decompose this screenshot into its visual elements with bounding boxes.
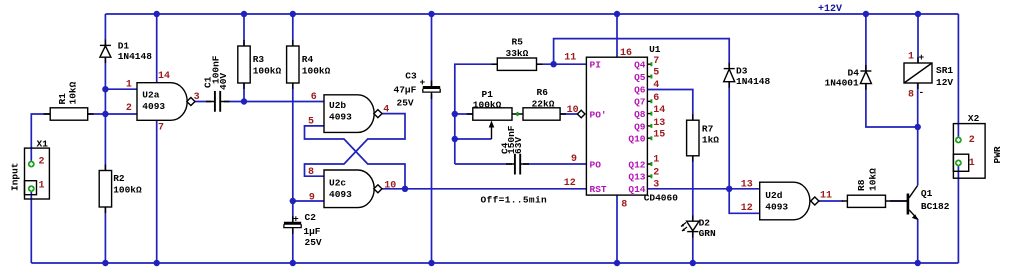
wire P1 left terminal — [455, 113, 473, 115]
svg-text:3: 3 — [194, 92, 200, 103]
node U2c out / RST — [402, 186, 408, 192]
wire U2b out crossover to U2c pin8 — [305, 114, 406, 177]
node top rail at D4 — [863, 11, 869, 17]
potentiometer P1 — [467, 108, 518, 139]
wire U2d out to R8 — [818, 200, 843, 202]
svg-text:C3: C3 — [405, 71, 417, 82]
svg-text:12: 12 — [741, 203, 753, 214]
nand gate U2b — [324, 95, 382, 133]
svg-text:1: 1 — [126, 80, 132, 91]
svg-text:BC182: BC182 — [921, 201, 950, 212]
wire R8 right to Q1 base — [890, 200, 908, 202]
svg-text:-: - — [919, 87, 925, 98]
wire C1 to R3 node to U2b pin6 — [224, 101, 324, 103]
node R4 / C2 / U2c pin9 — [290, 198, 296, 204]
svg-text:C2: C2 — [305, 212, 317, 223]
svg-text:R5: R5 — [512, 37, 524, 48]
svg-text:PWR: PWR — [992, 146, 1003, 163]
wire R3 top to +12V — [243, 14, 245, 46]
svg-text:15: 15 — [653, 130, 665, 141]
node R5 right / PI — [550, 61, 556, 67]
svg-text:1N4148: 1N4148 — [736, 76, 771, 87]
svg-text:R4: R4 — [302, 54, 314, 65]
svg-text:16: 16 — [620, 48, 632, 59]
svg-text:Q9: Q9 — [634, 121, 646, 132]
node top rail at R4 — [290, 11, 296, 17]
wire D2 cathode to GND — [692, 232, 694, 263]
wire U2b pin5 feedback to U2c out node — [305, 126, 406, 189]
wire SR1 pin8 to Q1 collector — [917, 83, 919, 185]
node top rail at U1 pin16 — [614, 11, 620, 17]
svg-text:Q1: Q1 — [921, 188, 933, 199]
svg-text:40V: 40V — [218, 73, 229, 90]
svg-text:7: 7 — [158, 123, 164, 134]
wire R5 right to U1 PI — [537, 63, 587, 65]
wire R1 right to U2a pin2 — [88, 113, 137, 115]
svg-text:D1: D1 — [118, 41, 130, 52]
capacitor C1 — [206, 91, 230, 112]
U1 PO' inverted pin bubble — [577, 110, 585, 118]
svg-text:4: 4 — [653, 80, 659, 91]
wire X1 pin2 to R1 — [31, 114, 50, 161]
svg-text:1: 1 — [653, 155, 659, 166]
node GND at U1 pin8 — [614, 260, 620, 266]
node riser / P1 left — [452, 111, 458, 117]
svg-text:8: 8 — [621, 200, 627, 211]
node GND at R2 — [102, 260, 108, 266]
relay SR1 — [904, 63, 932, 83]
svg-text:GRN: GRN — [699, 228, 716, 239]
svg-text:Q12: Q12 — [628, 160, 645, 171]
wire D4 anode to relay node — [866, 84, 918, 127]
IC U1 CD4060 box — [586, 57, 647, 195]
svg-text:1: 1 — [969, 158, 975, 169]
svg-text:6: 6 — [311, 92, 317, 103]
svg-text:PO': PO' — [590, 110, 607, 121]
svg-text:8: 8 — [908, 90, 914, 101]
resistor R2 — [99, 171, 111, 208]
U1 unconnected pin markers — [650, 62, 652, 178]
wire U1 Q6 to R7 top — [647, 90, 692, 121]
svg-text:1µF: 1µF — [303, 226, 320, 237]
svg-text:+12V: +12V — [818, 4, 842, 15]
svg-text:2: 2 — [653, 168, 659, 179]
svg-text:+: + — [919, 52, 925, 63]
wire P1 wiper to riser — [455, 138, 492, 140]
svg-text:10: 10 — [384, 181, 396, 192]
diode D3 — [724, 69, 735, 82]
wire D1 top lead from +12V rail — [104, 14, 106, 45]
svg-text:4: 4 — [383, 105, 389, 116]
svg-text:11: 11 — [820, 191, 832, 202]
svg-text:Q14: Q14 — [628, 184, 645, 195]
svg-text:X2: X2 — [968, 113, 980, 124]
svg-text:R2: R2 — [113, 173, 125, 184]
nand gate U2d — [760, 182, 819, 220]
wire D3 anode to Q14 net — [728, 82, 730, 189]
svg-text:SR1: SR1 — [936, 65, 953, 76]
svg-text:Q4: Q4 — [634, 60, 646, 71]
wire U1 Q14 to U2d pin13 — [647, 188, 759, 190]
wire C4 right to U1 PO — [523, 163, 586, 165]
svg-text:Q7: Q7 — [634, 97, 646, 108]
svg-text:2: 2 — [969, 135, 975, 146]
svg-text:P1: P1 — [482, 89, 494, 100]
svg-text:5: 5 — [653, 68, 659, 79]
svg-text:U1: U1 — [649, 44, 661, 55]
svg-text:10: 10 — [567, 105, 579, 116]
svg-text:1kΩ: 1kΩ — [702, 135, 719, 146]
svg-text:Input: Input — [10, 162, 21, 191]
svg-text:X1: X1 — [37, 139, 49, 150]
wire R3 bottom to node — [243, 83, 245, 102]
svg-text:+: + — [293, 214, 299, 225]
svg-text:R8: R8 — [856, 179, 867, 191]
wire U2c pin9 to C2 node — [293, 200, 324, 202]
svg-text:U2d: U2d — [765, 190, 782, 201]
capacitor C3 polarized — [423, 88, 440, 93]
node GND at D2 — [690, 260, 696, 266]
wire U2a pin14 to +12V — [156, 14, 158, 83]
diode D4 — [860, 71, 871, 84]
connector X1 — [25, 148, 50, 199]
svg-text:1: 1 — [39, 181, 45, 192]
svg-text:D2: D2 — [699, 218, 711, 229]
wire GND bottom rail — [31, 262, 958, 264]
resistor R8 — [842, 195, 891, 207]
wire U2c out to U1 RST — [381, 188, 587, 190]
svg-text:100kΩ: 100kΩ — [302, 66, 331, 77]
svg-text:10kΩ: 10kΩ — [68, 81, 79, 104]
svg-text:6: 6 — [653, 93, 659, 104]
resistor R1 — [44, 108, 94, 120]
svg-text:Q13: Q13 — [628, 172, 645, 183]
wire R5 node riser to D3 cathode — [554, 39, 730, 69]
node R1 / U2a pin2 — [102, 111, 108, 117]
wire R4 bottom to C2 node — [292, 83, 294, 222]
wire D4 top to +12V — [865, 14, 867, 71]
svg-text:9: 9 — [571, 154, 577, 165]
node top rail at SR1 — [915, 11, 921, 17]
svg-text:Q6: Q6 — [634, 84, 646, 95]
wire X2 pin2 to +12V — [957, 14, 959, 137]
capacitor C2 polarized — [284, 223, 301, 227]
diode D1 — [100, 45, 111, 57]
svg-text:100kΩ: 100kΩ — [473, 100, 502, 111]
wire R7 bottom to D2 anode — [692, 156, 694, 222]
node D1 anode / U2a pin1 — [102, 86, 108, 92]
svg-text:14: 14 — [158, 71, 170, 82]
node P1/R6 junction marker — [517, 112, 519, 116]
wire U2a out to C1 — [194, 101, 211, 103]
wire X1 pin1 to GND — [30, 192, 32, 263]
node R3 bottom / C1 — [241, 98, 247, 104]
svg-text:100kΩ: 100kΩ — [113, 185, 142, 196]
svg-text:+: + — [420, 77, 426, 88]
resistor R4 — [287, 46, 299, 83]
LED D2 — [681, 221, 699, 231]
svg-text:U2a: U2a — [142, 90, 159, 101]
node riser / P1 wiper — [452, 136, 458, 142]
wire node to U2a pin1 — [105, 88, 137, 90]
node top rail at R3 — [241, 11, 247, 17]
wire PO row through C4 left — [455, 163, 512, 165]
resistor R5 — [492, 58, 543, 70]
wire C3 bottom to GND — [431, 94, 433, 263]
node GND at U2a pin7 — [154, 260, 160, 266]
wire R4 top to +12V — [292, 14, 294, 46]
svg-text:R1: R1 — [57, 93, 68, 105]
svg-text:25V: 25V — [397, 98, 414, 109]
svg-text:3: 3 — [653, 180, 659, 191]
nand gate U2c — [324, 170, 382, 208]
wire black component lead stubs — [105, 40, 918, 238]
svg-text:13: 13 — [653, 118, 665, 129]
wire branch to U2d pin12 — [729, 189, 760, 214]
svg-text:1N4001: 1N4001 — [825, 78, 860, 89]
wire +12V top rail — [105, 13, 958, 15]
svg-text:1N4148: 1N4148 — [118, 51, 153, 62]
U1 right pin stubs — [647, 64, 651, 176]
svg-text:R6: R6 — [537, 87, 549, 98]
svg-text:11: 11 — [564, 53, 576, 64]
node D4 / SR1 pin8 — [915, 124, 921, 130]
capacitor C4 — [506, 154, 529, 175]
wire C2 bottom to GND — [292, 229, 294, 264]
wire R6 right to U1 PO' — [560, 113, 578, 115]
svg-text:PI: PI — [590, 60, 601, 71]
svg-text:U2b: U2b — [329, 100, 346, 111]
wire D1 anode to R2 column — [104, 57, 106, 170]
node GND at C2 — [290, 260, 296, 266]
svg-text:7: 7 — [653, 56, 659, 67]
svg-text:12: 12 — [564, 178, 576, 189]
node top rail at U2a pin14 — [154, 11, 160, 17]
svg-text:CD4060: CD4060 — [644, 193, 679, 204]
node GND at Q1 emitter — [915, 260, 921, 266]
node D3 anode / U2d inputs — [726, 186, 732, 192]
nand gate U2a — [137, 83, 195, 121]
svg-text:8: 8 — [308, 167, 314, 178]
svg-text:U2c: U2c — [329, 178, 346, 189]
svg-text:4093: 4093 — [765, 202, 788, 213]
svg-text:47µF: 47µF — [394, 85, 417, 96]
svg-text:RST: RST — [590, 184, 607, 195]
wire X2 pin1 to GND — [957, 166, 959, 263]
svg-text:Q10: Q10 — [628, 134, 645, 145]
svg-text:12V: 12V — [936, 77, 953, 88]
resistor R6 — [518, 108, 567, 120]
transistor Q1 — [891, 185, 918, 220]
svg-text:25V: 25V — [305, 237, 322, 248]
svg-text:100kΩ: 100kΩ — [253, 66, 282, 77]
svg-text:R3: R3 — [253, 54, 265, 65]
svg-text:Q5: Q5 — [634, 72, 646, 83]
wire U1 pin16 to +12V — [616, 14, 618, 57]
svg-text:13: 13 — [741, 180, 753, 191]
svg-text:2: 2 — [39, 157, 45, 168]
svg-text:4093: 4093 — [142, 101, 165, 112]
svg-text:5: 5 — [308, 117, 314, 128]
wire Q1 emitter to GND — [917, 219, 919, 263]
svg-text:63V: 63V — [513, 137, 524, 154]
wire R2 bottom to GND — [104, 207, 106, 263]
svg-text:9: 9 — [309, 193, 315, 204]
node top rail at C3 — [428, 11, 434, 17]
wire R5 left riser — [455, 64, 498, 164]
wire C3 top to +12V — [431, 14, 433, 86]
svg-text:22kΩ: 22kΩ — [532, 99, 555, 110]
svg-text:1: 1 — [908, 52, 914, 63]
svg-text:4093: 4093 — [329, 112, 352, 123]
resistor R7 — [687, 120, 699, 156]
wire U1 pin8 to GND — [616, 195, 618, 263]
wire U2a pin7 to GND — [156, 120, 158, 263]
svg-text:R7: R7 — [702, 124, 714, 135]
svg-text:Q8: Q8 — [634, 109, 646, 120]
svg-text:2: 2 — [126, 103, 132, 114]
svg-text:Off=1..5min: Off=1..5min — [481, 195, 548, 206]
svg-text:4093: 4093 — [329, 189, 352, 200]
resistor R3 — [238, 46, 250, 83]
connector X2 — [953, 124, 985, 179]
svg-text:10kΩ: 10kΩ — [868, 168, 879, 191]
wire SR1 pin1 to +12V — [917, 14, 919, 63]
svg-text:D3: D3 — [736, 66, 748, 77]
svg-text:33kΩ: 33kΩ — [506, 48, 529, 59]
svg-text:14: 14 — [653, 105, 665, 116]
node GND at C3 — [428, 260, 434, 266]
svg-text:PO: PO — [590, 160, 602, 171]
